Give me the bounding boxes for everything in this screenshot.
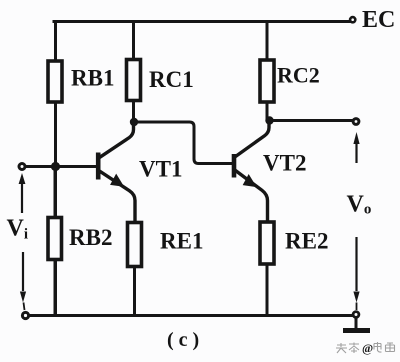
wire bottom rail xyxy=(30,314,352,317)
wire input to base VT1 xyxy=(25,165,96,168)
resistor RE2 xyxy=(260,222,274,264)
wire RC2 stem xyxy=(266,22,269,119)
resistor RB2 xyxy=(48,218,62,260)
Vi arrow up xyxy=(19,173,26,213)
terminal EC circle xyxy=(350,17,355,22)
watermark 头条@电巢 xyxy=(336,342,395,353)
svg-text:RC1: RC1 xyxy=(149,67,194,92)
wire RE2 to bottom rail xyxy=(266,263,269,314)
svg-text:RE2: RE2 xyxy=(285,229,328,254)
wire coupling VT1 collector to VT2 base xyxy=(136,122,231,164)
svg-text:@: @ xyxy=(362,341,373,355)
wire VT1 emitter xyxy=(100,171,136,223)
wire RC1 stem xyxy=(132,22,135,121)
svg-text:RE1: RE1 xyxy=(160,229,203,254)
wire output xyxy=(271,119,352,122)
svg-text:RB2: RB2 xyxy=(69,225,112,250)
svg-text:RC2: RC2 xyxy=(277,63,320,88)
wire RE1 to bottom rail xyxy=(133,263,136,314)
node junction dot RC1/VT1 collector xyxy=(130,118,138,126)
resistor RB1 xyxy=(48,61,62,102)
svg-text:EC: EC xyxy=(362,7,395,33)
wire ground stem xyxy=(355,319,358,329)
svg-text:Vi: Vi xyxy=(7,216,29,243)
ground xyxy=(343,328,370,333)
Vi arrow down xyxy=(20,252,26,310)
resistor RC2 xyxy=(260,60,274,102)
svg-text:(c): (c) xyxy=(167,329,204,351)
node junction dot at VT1 base rail xyxy=(51,162,60,171)
terminal bottom-right circle xyxy=(353,312,359,318)
resistor RC1 xyxy=(127,60,141,101)
Vo arrow up xyxy=(353,132,359,163)
svg-text:VT1: VT1 xyxy=(139,157,182,182)
resistor RE1 xyxy=(128,223,142,267)
wire RB2 stems xyxy=(54,167,57,314)
svg-text:Vo: Vo xyxy=(347,192,372,218)
transistor VT2 xyxy=(234,154,256,186)
terminal bottom-left circle xyxy=(22,312,28,318)
wire VT2 emitter xyxy=(236,171,268,224)
transistor VT1 xyxy=(98,153,123,187)
wire VT1 collector xyxy=(100,124,134,158)
wire top rail EC xyxy=(54,20,349,23)
terminal output circle xyxy=(353,119,359,125)
terminal input circle xyxy=(19,164,25,170)
svg-text:RB1: RB1 xyxy=(71,66,114,91)
wire VT2 collector xyxy=(236,122,270,157)
svg-text:VT2: VT2 xyxy=(263,151,306,176)
wire left rail xyxy=(54,22,57,315)
Vo arrow down xyxy=(353,237,359,310)
node junction dot RC2/VT2 collector xyxy=(265,116,273,124)
